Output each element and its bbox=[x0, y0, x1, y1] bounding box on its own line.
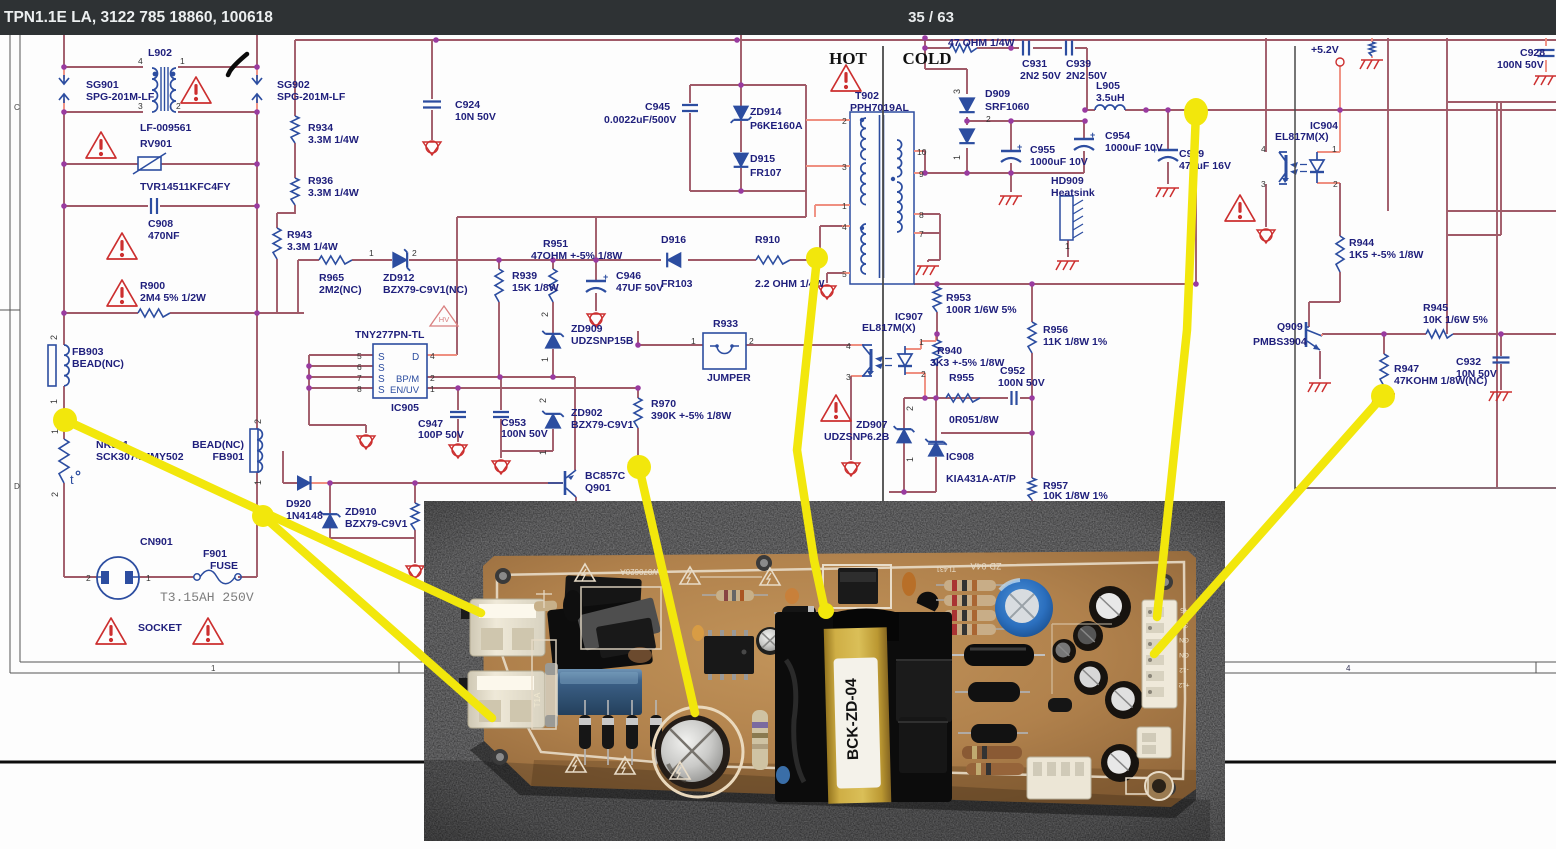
transformer body bbox=[775, 612, 952, 802]
svg-text:IC905: IC905 bbox=[391, 402, 419, 414]
svg-text:GN: GN bbox=[1179, 651, 1189, 658]
wire EN/UV net bbox=[427, 387, 638, 389]
wire IC904 led pins bbox=[1317, 110, 1340, 183]
warning HOT bbox=[831, 65, 861, 91]
resistor array bbox=[936, 584, 1005, 586]
zener ZD907 bbox=[897, 429, 912, 443]
wire C953 branch bbox=[500, 377, 502, 458]
svg-text:3: 3 bbox=[846, 372, 851, 382]
wire R944 chain bbox=[1309, 183, 1340, 327]
svg-text:15K 1/8W: 15K 1/8W bbox=[512, 282, 559, 294]
capacitor C947 bbox=[450, 412, 466, 417]
svg-text:3: 3 bbox=[952, 89, 962, 94]
svg-text:D909: D909 bbox=[985, 88, 1010, 100]
resistor R965 bbox=[319, 256, 352, 264]
svg-text:2: 2 bbox=[540, 312, 550, 317]
warning C908 bbox=[107, 233, 137, 259]
wire ZD907 branch bbox=[903, 398, 905, 492]
svg-text:Q901: Q901 bbox=[585, 482, 611, 494]
wire L905 rail bbox=[1085, 109, 1556, 111]
svg-text:R940: R940 bbox=[937, 345, 962, 357]
earth R947 bbox=[1373, 393, 1395, 395]
diode D916 bbox=[667, 253, 681, 268]
wire cold feedback vertical bbox=[1031, 284, 1033, 501]
capacitor C953 bbox=[493, 412, 509, 417]
wire IC907 pin2 bbox=[905, 373, 925, 398]
svg-text:390K +-5% 1/8W: 390K +-5% 1/8W bbox=[651, 410, 731, 422]
ground R970 bbox=[629, 463, 647, 476]
svg-text:2: 2 bbox=[538, 398, 548, 403]
wire C947 branch bbox=[457, 388, 459, 442]
svg-text:R900: R900 bbox=[140, 280, 165, 292]
svg-text:1: 1 bbox=[49, 399, 59, 404]
svg-text:4: 4 bbox=[1261, 144, 1266, 154]
svg-text:CN901: CN901 bbox=[140, 536, 173, 548]
small silver cap bbox=[756, 627, 784, 655]
resistor R953 bbox=[933, 287, 941, 312]
resistor R900 bbox=[138, 309, 170, 317]
wire T902 pin2 pin3 stubs bbox=[806, 120, 850, 166]
toolbar bbox=[0, 0, 1556, 35]
warning L902 bbox=[181, 77, 211, 103]
svg-text:R970: R970 bbox=[651, 398, 676, 410]
svg-text:SRF1060: SRF1060 bbox=[985, 101, 1030, 113]
wire D920 bbox=[311, 482, 330, 484]
wire R934 chain bbox=[277, 40, 295, 313]
svg-text:1000uF 10V: 1000uF 10V bbox=[1030, 156, 1088, 168]
ferrite bead FB901 bbox=[250, 429, 258, 472]
wire C954 branch bbox=[1083, 121, 1085, 173]
svg-text:5: 5 bbox=[357, 351, 362, 361]
T902 pin stubs bbox=[842, 120, 922, 273]
svg-text:2M2(NC): 2M2(NC) bbox=[319, 284, 362, 296]
svg-text:C908: C908 bbox=[148, 218, 173, 230]
8pin DIP IC bbox=[708, 630, 712, 638]
wire IC904 pin3 ground bbox=[1265, 184, 1267, 227]
wire topright resistor branch bbox=[1371, 38, 1373, 58]
beige resistor top bbox=[716, 590, 754, 601]
svg-text:HOT: HOT bbox=[829, 49, 867, 68]
svg-text:S: S bbox=[378, 385, 385, 396]
svg-text:100N 50V: 100N 50V bbox=[1497, 59, 1544, 71]
capacitor C955 bbox=[1001, 150, 1021, 152]
svg-text:3.3M 1/4W: 3.3M 1/4W bbox=[287, 241, 338, 253]
capacitor C932 bbox=[1493, 358, 1510, 363]
svg-text:TL431: TL431 bbox=[936, 565, 956, 572]
warning RV901 bbox=[86, 132, 116, 158]
svg-text:2: 2 bbox=[921, 369, 926, 379]
board shadow bbox=[470, 741, 1196, 818]
svg-text:UDZSNP15B: UDZSNP15B bbox=[571, 335, 634, 347]
resistor R957 bbox=[1028, 478, 1036, 500]
svg-text:BCK-ZD-04: BCK-ZD-04 bbox=[843, 678, 862, 761]
connector CONN2 bbox=[459, 678, 471, 692]
svg-text:R953: R953 bbox=[946, 292, 971, 304]
wire IC907 transistor stubs bbox=[851, 345, 864, 376]
capacitor C931 bbox=[1023, 41, 1029, 56]
resistor R947 bbox=[1380, 354, 1388, 386]
jumper R933 bbox=[703, 333, 746, 369]
svg-text:BEAD(NC): BEAD(NC) bbox=[192, 439, 244, 451]
svg-text:C955: C955 bbox=[1030, 144, 1055, 156]
hot/cold divider bbox=[882, 46, 884, 501]
svg-text:1: 1 bbox=[905, 457, 915, 462]
svg-text:4: 4 bbox=[1346, 664, 1351, 673]
svg-text:10K 1/6W 5%: 10K 1/6W 5% bbox=[1423, 314, 1488, 326]
svg-text:1: 1 bbox=[952, 155, 962, 160]
svg-text:EN/UV: EN/UV bbox=[390, 385, 420, 396]
svg-text:10N 50V: 10N 50V bbox=[455, 111, 496, 123]
svg-text:R947: R947 bbox=[1394, 363, 1419, 375]
svg-text:100R 1/6W 5%: 100R 1/6W 5% bbox=[946, 304, 1017, 316]
wire right block bottom bbox=[1295, 487, 1556, 489]
wire R947 branch bbox=[1383, 334, 1385, 392]
svg-text:ZD907: ZD907 bbox=[856, 419, 888, 431]
fuse F901 bbox=[194, 574, 200, 580]
svg-text:+: + bbox=[603, 272, 608, 282]
resistor R934 bbox=[291, 116, 299, 143]
ground IC904 bbox=[1257, 230, 1275, 243]
svg-text:JUMPER: JUMPER bbox=[707, 372, 751, 384]
wire D909 branch bbox=[925, 48, 967, 173]
svg-text:2M4 5% 1/2W: 2M4 5% 1/2W bbox=[140, 292, 206, 304]
svg-text:7: 7 bbox=[919, 229, 924, 239]
right divider bbox=[1294, 46, 1296, 500]
wire R951 net verticals bbox=[499, 217, 596, 377]
zener ZD914 bbox=[734, 106, 749, 120]
right 7pin connector bbox=[1142, 600, 1177, 708]
varistor RV901 bbox=[138, 157, 161, 170]
wire IC905 drain pin4 bbox=[427, 354, 457, 356]
earth C928 bbox=[1535, 75, 1556, 77]
svg-text:100N 50V: 100N 50V bbox=[998, 377, 1045, 389]
svg-text:470NF: 470NF bbox=[148, 230, 180, 242]
opto 4pin IC bbox=[823, 565, 891, 608]
svg-text:D: D bbox=[14, 482, 20, 491]
wire IC904 pin4 vertical bbox=[1265, 38, 1267, 152]
svg-text:ZD902: ZD902 bbox=[571, 407, 603, 419]
choke black blocks bbox=[564, 575, 642, 611]
svg-text:1: 1 bbox=[538, 450, 548, 455]
svg-text:4: 4 bbox=[430, 351, 435, 361]
svg-text:1: 1 bbox=[430, 384, 435, 394]
wire C945/ZD914 top net bbox=[690, 35, 806, 106]
wire socket net bbox=[64, 576, 194, 578]
svg-text:ZD909: ZD909 bbox=[571, 323, 603, 335]
wire Q901 collector bbox=[575, 497, 577, 501]
svg-text:R910: R910 bbox=[755, 234, 780, 246]
wire drain net bbox=[433, 191, 806, 355]
svg-text:ZD910: ZD910 bbox=[345, 506, 377, 518]
board silkscreen border bbox=[497, 562, 1185, 779]
svg-text:4: 4 bbox=[842, 222, 847, 232]
diode D920 bbox=[298, 476, 311, 490]
svg-text:100N 50V: 100N 50V bbox=[501, 428, 548, 440]
wire D909 pin2 net bbox=[967, 120, 1085, 122]
earth heatsink bbox=[1057, 260, 1079, 262]
transformer L902 bbox=[152, 68, 158, 112]
svg-text:BP/M: BP/M bbox=[396, 374, 419, 385]
blue bit bottom left of transformer bbox=[776, 766, 790, 784]
wire RV901 net bbox=[64, 112, 257, 164]
wire 47ohm branch bbox=[925, 38, 1087, 110]
pen mark bbox=[228, 54, 247, 75]
warning socket2 bbox=[193, 618, 223, 644]
wire IC908 ref bbox=[941, 432, 1032, 434]
svg-text:R936: R936 bbox=[308, 175, 333, 187]
wire heatsink pin bbox=[1067, 240, 1069, 257]
svg-text:Heatsink: Heatsink bbox=[1051, 187, 1095, 199]
resistor R951 bbox=[549, 269, 557, 302]
wire left entry verticals bbox=[64, 35, 257, 67]
ground C947 bbox=[449, 445, 467, 458]
svg-text:11K 1/8W 1%: 11K 1/8W 1% bbox=[1043, 336, 1108, 348]
wire R970 branch bbox=[637, 388, 639, 460]
svg-text:L905: L905 bbox=[1096, 80, 1120, 92]
yellow disc cap bbox=[692, 625, 704, 641]
right 3pin connector bbox=[1137, 727, 1171, 758]
earth T902 sec bbox=[917, 265, 939, 267]
svg-text:FR103: FR103 bbox=[661, 278, 693, 290]
wire BP/M net bbox=[427, 377, 575, 470]
wire top rail bbox=[295, 39, 1556, 41]
ground R952 bbox=[406, 566, 424, 579]
earth C932 bbox=[1490, 391, 1512, 393]
svg-text:SPG-201M-LF: SPG-201M-LF bbox=[86, 91, 155, 103]
wire jumper net bbox=[638, 331, 851, 345]
transformer yellow tape bbox=[824, 627, 892, 804]
resistor R940 bbox=[933, 340, 941, 366]
orange disc bbox=[785, 588, 799, 604]
svg-text:100P 50V: 100P 50V bbox=[418, 429, 464, 441]
wire C928 branch bbox=[1545, 38, 1547, 72]
optocoupler IC904 bbox=[1285, 155, 1288, 181]
tall beige resistor bbox=[752, 710, 768, 770]
svg-text:2: 2 bbox=[49, 335, 59, 340]
svg-text:SOCKET: SOCKET bbox=[138, 622, 182, 634]
svg-text:4: 4 bbox=[138, 56, 143, 66]
resistor R955 bbox=[946, 394, 980, 402]
resistor R910 bbox=[756, 256, 790, 264]
svg-text:1: 1 bbox=[919, 337, 924, 347]
wire SG901 branch bbox=[63, 67, 65, 112]
svg-text:FB903: FB903 bbox=[72, 346, 104, 358]
wire IC907 pin1 bbox=[905, 334, 936, 349]
wire T902 pins 7 8 bbox=[916, 214, 940, 262]
svg-text:ZD912: ZD912 bbox=[383, 272, 415, 284]
svg-text:2: 2 bbox=[749, 336, 754, 346]
svg-text:C: C bbox=[14, 103, 20, 112]
resistor R956 bbox=[1028, 322, 1036, 353]
inductor L905 bbox=[1095, 105, 1125, 110]
annotation line L5 bbox=[1157, 112, 1196, 617]
zener ZD912 bbox=[393, 252, 407, 267]
page separator line bbox=[0, 761, 1556, 764]
svg-text:HD909: HD909 bbox=[1051, 175, 1084, 187]
svg-text:D920: D920 bbox=[286, 498, 311, 510]
optocoupler IC907 bbox=[870, 349, 873, 373]
warning socket1 bbox=[96, 618, 126, 644]
silkscreen triangles bbox=[575, 564, 595, 581]
capacitor C954 bbox=[1074, 138, 1094, 140]
small black diode h bbox=[774, 612, 830, 614]
wire IC907 pin3 ground bbox=[850, 376, 852, 460]
svg-text:1N4148: 1N4148 bbox=[286, 510, 323, 522]
svg-text:R951: R951 bbox=[543, 238, 568, 250]
annotation line L4 bbox=[797, 258, 825, 611]
capacitor C945 bbox=[682, 105, 698, 111]
svg-text:10K 1/8W 1%: 10K 1/8W 1% bbox=[1043, 490, 1108, 502]
svg-text:TNY277PN-TL: TNY277PN-TL bbox=[355, 329, 425, 341]
transformer label BCK-ZD-04 bbox=[834, 657, 881, 788]
svg-text:3.3M 1/4W: 3.3M 1/4W bbox=[308, 134, 359, 146]
svg-text:470uF 16V: 470uF 16V bbox=[1179, 160, 1231, 172]
svg-text:R933: R933 bbox=[713, 318, 738, 330]
svg-text:F901: F901 bbox=[203, 548, 227, 560]
wire C924 branch bbox=[431, 40, 433, 140]
svg-text:3: 3 bbox=[138, 101, 143, 111]
socket CN901 bbox=[97, 557, 139, 599]
blue box capacitor bbox=[556, 669, 642, 715]
svg-text:T3.15AH 250V: T3.15AH 250V bbox=[160, 590, 254, 605]
capacitor C929 bbox=[1158, 149, 1178, 151]
capacitor C928 bbox=[1538, 50, 1555, 56]
wire R945 net bbox=[1322, 333, 1556, 335]
capacitor C952 bbox=[1012, 391, 1017, 405]
svg-text:FB901: FB901 bbox=[212, 451, 244, 463]
transformer T902 bbox=[850, 112, 914, 284]
svg-text:3.3M 1/4W: 3.3M 1/4W bbox=[308, 187, 359, 199]
ground C953 bbox=[492, 461, 510, 474]
wire right block outline bbox=[1448, 102, 1556, 488]
svg-text:2: 2 bbox=[253, 419, 263, 424]
svg-text:2: 2 bbox=[905, 406, 915, 411]
svg-text:3.5uH: 3.5uH bbox=[1096, 92, 1125, 104]
svg-text:5: 5 bbox=[842, 269, 847, 279]
resistor R939 bbox=[495, 269, 503, 302]
svg-text:C946: C946 bbox=[616, 270, 641, 282]
svg-text:SPG-201M-LF: SPG-201M-LF bbox=[277, 91, 346, 103]
svg-text:1: 1 bbox=[691, 336, 696, 346]
wire C955 branch bbox=[1010, 121, 1012, 192]
svg-text:R965: R965 bbox=[319, 272, 344, 284]
junction dots bbox=[61, 64, 67, 70]
screw holes bbox=[495, 568, 511, 584]
svg-text:R943: R943 bbox=[287, 229, 312, 241]
wire R953 branch bbox=[936, 284, 938, 398]
svg-text:T1A: T1A bbox=[533, 692, 542, 707]
resistor R943 bbox=[273, 228, 281, 259]
capacitor C924 bbox=[423, 102, 441, 108]
svg-text:8: 8 bbox=[919, 210, 924, 220]
svg-text:HV: HV bbox=[439, 315, 449, 324]
svg-text:47OHM +-5% 1/8W: 47OHM +-5% 1/8W bbox=[531, 250, 622, 262]
svg-text:1: 1 bbox=[211, 664, 216, 673]
wire FB901 branch bbox=[238, 313, 257, 577]
wire cold top net bbox=[914, 283, 1196, 285]
resistor 47ohm bbox=[950, 44, 977, 52]
svg-text:C931: C931 bbox=[1022, 58, 1047, 70]
svg-text:C928: C928 bbox=[1520, 47, 1545, 59]
diode D909 bbox=[959, 98, 974, 112]
blue electrolytic cap bbox=[995, 579, 1053, 637]
svg-text:BZX79-C9V1(NC): BZX79-C9V1(NC) bbox=[383, 284, 468, 296]
wire secondary net y173 bbox=[916, 151, 1084, 173]
svg-text:EL817M(X): EL817M(X) bbox=[862, 322, 916, 334]
svg-text:1: 1 bbox=[180, 56, 185, 66]
shunt reg IC908 bbox=[928, 442, 943, 456]
svg-text:IC908: IC908 bbox=[946, 451, 974, 463]
svg-text:Q909: Q909 bbox=[1277, 321, 1303, 333]
+5.2V terminal bbox=[1336, 58, 1344, 66]
svg-text:2: 2 bbox=[176, 101, 181, 111]
svg-text:C954: C954 bbox=[1105, 130, 1130, 142]
wire D916-R910 net bbox=[688, 226, 850, 260]
svg-text:t: t bbox=[70, 472, 74, 487]
wire R900 net bbox=[64, 206, 304, 313]
svg-text:+: + bbox=[1090, 130, 1095, 140]
svg-text:SG902: SG902 bbox=[277, 79, 310, 91]
svg-text:BZX79-C9V1: BZX79-C9V1 bbox=[345, 518, 408, 530]
earth C955 bbox=[1000, 195, 1022, 197]
svg-text:4: 4 bbox=[846, 341, 851, 351]
wire right vertical x1388 bbox=[1387, 38, 1389, 211]
svg-text:C932: C932 bbox=[1456, 356, 1481, 368]
svg-text:D: D bbox=[412, 352, 419, 363]
PCB board bbox=[483, 551, 1196, 807]
svg-text:2: 2 bbox=[50, 492, 60, 497]
capacitor C939 bbox=[1066, 41, 1072, 56]
svg-text:TVR14511KFC4FY: TVR14511KFC4FY bbox=[140, 181, 230, 193]
wire IC908 branch bbox=[935, 398, 937, 492]
svg-text:0R051/8W: 0R051/8W bbox=[949, 414, 999, 426]
svg-text:1: 1 bbox=[1065, 241, 1070, 251]
thermistor NR901 bbox=[59, 439, 69, 483]
heatsink HD909 bbox=[1060, 196, 1073, 240]
capacitor C908 bbox=[151, 198, 157, 214]
zener ZD909 bbox=[545, 334, 560, 348]
svg-text:R939: R939 bbox=[512, 270, 537, 282]
buzzer bbox=[1145, 772, 1173, 800]
annotation line L3 bbox=[639, 467, 695, 713]
wire C929 branch bbox=[1167, 110, 1169, 184]
svg-text:2: 2 bbox=[412, 248, 417, 258]
svg-text:3K3 +-5% 1/8W: 3K3 +-5% 1/8W bbox=[930, 357, 1004, 369]
annotation line L2 bbox=[263, 516, 492, 718]
svg-text:R934: R934 bbox=[308, 122, 333, 134]
annotation line L1 bbox=[65, 420, 481, 613]
svg-text:BC857C: BC857C bbox=[585, 470, 626, 482]
earth Q909 bbox=[1309, 382, 1331, 384]
svg-text:COLD: COLD bbox=[902, 49, 951, 68]
svg-text:ZD914: ZD914 bbox=[750, 106, 782, 118]
svg-text:S: S bbox=[378, 352, 385, 363]
orange disc tall bbox=[902, 572, 916, 596]
wire Q901 base net bbox=[283, 451, 563, 483]
svg-text:FR107: FR107 bbox=[750, 167, 782, 179]
wire snubber bottom net bbox=[690, 85, 806, 191]
wire R965/ZD912 net bbox=[298, 259, 661, 261]
resistor topright bbox=[1369, 42, 1375, 56]
resistor R944 bbox=[1336, 236, 1344, 272]
svg-text:C952: C952 bbox=[1000, 365, 1025, 377]
connector CONN1 bbox=[461, 605, 473, 619]
wire IC905 pin bus bbox=[309, 355, 373, 433]
wire R952 branch bbox=[414, 483, 416, 563]
ground ZD907 bbox=[842, 463, 860, 476]
svg-text:2: 2 bbox=[1333, 179, 1338, 189]
svg-text:TPN1.1E LA, 3122 785 18860, 10: TPN1.1E LA, 3122 785 18860, 100618 bbox=[4, 9, 273, 26]
